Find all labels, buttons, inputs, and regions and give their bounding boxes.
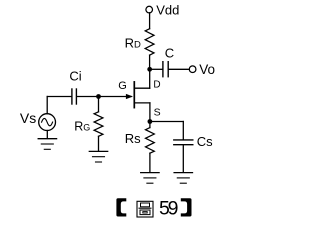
wire RD to drain node <box>149 55 151 69</box>
wire Vs to gate wire <box>46 97 48 114</box>
wire C to Vo terminal <box>169 68 189 70</box>
capacitor Ci <box>71 89 73 104</box>
svg-text:Rs: Rs <box>125 131 141 146</box>
wire drain lead <box>134 87 149 89</box>
source Vs sine <box>42 118 53 125</box>
svg-text:D: D <box>153 80 160 91</box>
wire source lead down <box>149 103 151 122</box>
svg-text:S: S <box>154 106 161 118</box>
wire RG to ground <box>98 136 100 151</box>
wire RS to ground <box>149 153 151 172</box>
ground RS <box>141 173 159 184</box>
wire Ci to gate <box>77 96 131 98</box>
caption bracket right <box>181 198 192 216</box>
wire gate node to RG <box>98 97 100 112</box>
wire drain node down <box>149 69 151 88</box>
wire gate <box>47 96 71 98</box>
ground Cs <box>174 173 192 184</box>
caption glyph tu (figure) <box>137 201 153 217</box>
wire Cs top <box>182 122 184 140</box>
wire source lead <box>134 102 150 104</box>
wire drain node to C <box>150 68 163 70</box>
svg-text:G: G <box>118 80 127 92</box>
capacitor C <box>162 62 164 77</box>
svg-text:Vs: Vs <box>20 110 36 126</box>
svg-text:RD: RD <box>125 36 141 51</box>
svg-text:C: C <box>165 46 174 61</box>
caption bracket left <box>116 198 126 216</box>
resistor RD <box>145 29 154 55</box>
svg-text:RG: RG <box>74 119 90 133</box>
capacitor Cs <box>174 139 193 141</box>
terminal Vdd <box>146 6 153 13</box>
ground RG <box>89 151 107 162</box>
wire source node to RS <box>149 122 151 128</box>
source Vs <box>39 114 56 131</box>
svg-text:Ci: Ci <box>69 69 81 84</box>
node drain junction <box>147 67 152 72</box>
resistor RS <box>146 128 155 154</box>
wire Vdd to RD <box>149 13 151 29</box>
wire Vs to ground <box>46 131 48 139</box>
resistor RG <box>94 112 103 137</box>
svg-text:Vdd: Vdd <box>156 2 179 17</box>
transistor Q1 channel bar <box>133 82 135 108</box>
gate arrowhead <box>126 94 133 99</box>
wire source node to Cs <box>150 121 183 123</box>
svg-text:Vo: Vo <box>199 62 215 77</box>
ground Vs <box>38 139 56 150</box>
svg-text:59: 59 <box>159 197 178 219</box>
svg-text:Cs: Cs <box>197 134 213 149</box>
node source junction <box>148 119 153 124</box>
terminal Vo <box>189 66 196 73</box>
wire Cs to ground <box>182 145 184 172</box>
node gate junction <box>96 94 101 99</box>
